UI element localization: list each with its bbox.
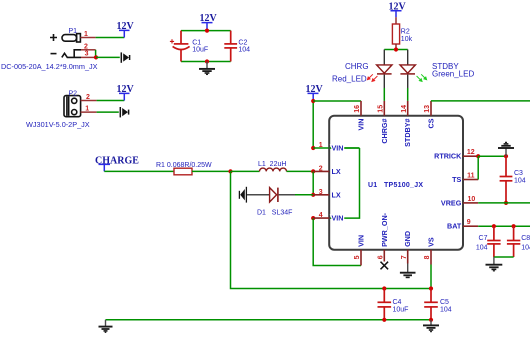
capacitor C1 (polarized 10uF) <box>170 31 190 62</box>
wire junction to L1 <box>231 170 260 172</box>
wire pin12 to C3 <box>478 155 506 157</box>
svg-text:R2: R2 <box>401 29 410 36</box>
power 12V (above C1/C2) <box>200 13 218 30</box>
capacitor C5 (104) <box>424 289 438 320</box>
wire VIN loop inside IC <box>329 148 359 218</box>
svg-text:BAT: BAT <box>447 222 462 231</box>
svg-text:TS: TS <box>452 175 461 184</box>
junction C8 top <box>511 224 515 228</box>
pin 15 stub <box>383 101 385 116</box>
wire L1 to pin 2 <box>287 170 314 172</box>
wire pin 8 down to bottom rail <box>430 265 432 289</box>
svg-text:LX: LX <box>332 190 341 199</box>
pin 10 stub <box>463 202 478 204</box>
svg-text:6: 6 <box>378 255 385 259</box>
capacitor C7 (104) <box>487 226 500 257</box>
svg-text:DC-005-20A_14.2*9.0mm_JX: DC-005-20A_14.2*9.0mm_JX <box>1 62 98 71</box>
diode D1 SL34F <box>270 188 295 202</box>
svg-text:C2: C2 <box>238 40 247 47</box>
wire C1C2 top rail <box>181 30 231 32</box>
wire junction down to bottom rail <box>231 171 432 288</box>
pin 2 stub P2 <box>81 100 97 102</box>
ground (P2, arrow style) <box>120 107 128 117</box>
svg-text:8: 8 <box>424 255 431 259</box>
junction 12V/pin16 <box>311 99 315 103</box>
svg-text:PWR_ON-: PWR_ON- <box>380 212 389 247</box>
svg-text:CHRG: CHRG <box>345 62 369 71</box>
svg-text:16: 16 <box>354 105 361 113</box>
pin 1 stub P1 <box>80 37 95 39</box>
capacitor C2 (104) <box>224 31 237 62</box>
wire P2 pin1 to ground <box>97 111 119 113</box>
wire LED CHRG to pin 15 <box>383 88 385 101</box>
svg-text:C5: C5 <box>440 299 449 306</box>
no-connect X on pin 6 <box>381 262 389 270</box>
junction C1C2 bottom <box>205 59 209 63</box>
svg-text:104: 104 <box>476 245 488 252</box>
wire CHARGE to R1 <box>104 170 174 172</box>
wire bottom rail B <box>106 319 432 321</box>
wire VREG to right edge <box>478 202 530 204</box>
pin 3 stub P1 <box>81 56 96 58</box>
svg-text:VIN: VIN <box>332 144 344 153</box>
inductor L1 22uH <box>260 168 287 171</box>
wire P2 pin2 to 12V <box>97 100 125 102</box>
junction pin 1 <box>311 146 315 150</box>
svg-text:P2: P2 <box>69 90 78 97</box>
svg-text:14: 14 <box>401 105 408 113</box>
junction R2/LEDs <box>394 47 398 51</box>
connector P2 (WJ301V) <box>64 96 81 117</box>
pin 1 stub P2 <box>81 111 97 113</box>
svg-text:104: 104 <box>514 178 526 185</box>
wire pin2 to pin3 vertical <box>312 171 314 194</box>
wire pin12 to pin11 <box>477 156 479 179</box>
pin 7 stub <box>407 250 409 264</box>
junction pin 12 <box>476 154 480 158</box>
svg-text:104: 104 <box>238 47 250 54</box>
pin 2 stub P1 <box>81 49 96 51</box>
ground (bottom left) <box>99 320 113 333</box>
junction pin 4 <box>311 216 315 220</box>
wire pin 1 into IC <box>313 147 359 149</box>
junction C3 top <box>504 154 508 158</box>
ground (pin 7 GND) <box>400 264 416 278</box>
junction pin 2 <box>311 169 315 173</box>
junction C4 top <box>382 286 386 290</box>
svg-text:P1: P1 <box>69 28 78 35</box>
capacitor C4 (10uF) <box>378 289 392 320</box>
wire CS pin13 to right edge <box>431 100 530 102</box>
power 12V (at IC pin 1/16) <box>306 84 324 101</box>
svg-text:VIN: VIN <box>357 119 366 131</box>
ground (below C7) <box>486 257 503 271</box>
svg-text:WJ301V-5.0-2P_JX: WJ301V-5.0-2P_JX <box>26 120 90 129</box>
pin 6 stub <box>383 250 385 262</box>
ground (P1, arrow style) <box>121 52 129 62</box>
svg-text:STDBY#: STDBY# <box>403 118 412 146</box>
pin 5 stub <box>360 250 362 266</box>
wire P1 pin2 to pin3 <box>95 50 97 58</box>
svg-text:15: 15 <box>378 105 385 113</box>
IC U1 TP5100_JX body <box>329 116 463 250</box>
svg-text:9: 9 <box>467 219 471 226</box>
pin 16 stub <box>360 101 362 116</box>
svg-text:C8: C8 <box>521 235 530 242</box>
pin 14 stub <box>407 101 409 116</box>
svg-text:C7: C7 <box>479 235 488 242</box>
svg-text:LX: LX <box>332 167 341 176</box>
pin 3 stub <box>313 194 329 196</box>
svg-text:C4: C4 <box>393 299 402 306</box>
wire pin 4 down and to pin 5 <box>313 218 361 265</box>
svg-text:2: 2 <box>319 165 323 172</box>
pin 9 stub <box>463 225 478 227</box>
wire C1C2 bottom rail <box>181 61 231 63</box>
svg-text:D1 SL34F: D1 SL34F <box>257 209 292 216</box>
capacitor C8 (104, clipped at edge) <box>507 226 520 257</box>
svg-text:U1 TP5100_JX: U1 TP5100_JX <box>368 182 423 189</box>
power 12V (above R2) <box>389 1 407 17</box>
svg-text:104: 104 <box>440 307 452 314</box>
svg-text:3: 3 <box>85 51 89 58</box>
svg-text:2: 2 <box>84 43 88 50</box>
svg-text:1: 1 <box>84 31 88 38</box>
pin 8 stub <box>430 250 432 265</box>
pin 2 stub <box>313 170 329 172</box>
power 12V (at P1) <box>117 21 135 38</box>
svg-text:GND: GND <box>403 231 412 247</box>
svg-text:Green_LED: Green_LED <box>432 70 474 79</box>
junction pin 3 <box>311 193 315 197</box>
pin 4 stub <box>313 217 329 219</box>
svg-text:7: 7 <box>401 255 408 259</box>
junction C7 top <box>492 224 496 228</box>
ground (D1, arrow style pointing left) <box>239 187 246 203</box>
svg-text:C1: C1 <box>192 40 201 47</box>
svg-text:CS: CS <box>427 118 436 128</box>
resistor R1 0.068R <box>174 168 192 175</box>
svg-text:1: 1 <box>85 106 89 113</box>
LED CHRG (red) <box>367 50 392 89</box>
net port CHARGE <box>95 156 139 172</box>
wire 12V to pin 16 <box>313 100 361 102</box>
junction C3 bottom / VREG <box>504 201 508 205</box>
capacitor C3 (104) <box>500 156 513 203</box>
svg-text:10: 10 <box>468 196 476 203</box>
junction C4 bottom <box>382 318 386 322</box>
svg-text:10uF: 10uF <box>192 47 208 54</box>
svg-text:10k: 10k <box>401 36 413 43</box>
svg-text:3: 3 <box>319 189 323 196</box>
svg-text:VIN: VIN <box>332 214 344 223</box>
ground (below C5) <box>423 320 439 332</box>
wire P1 pin1 to 12V <box>96 37 125 39</box>
svg-text:1: 1 <box>319 142 323 149</box>
svg-text:10uF: 10uF <box>393 307 409 314</box>
svg-text:5: 5 <box>354 255 361 259</box>
wire D1 to pin 3 <box>295 194 313 196</box>
svg-text:4: 4 <box>319 212 323 219</box>
svg-text:R1 0.068R/0.25W: R1 0.068R/0.25W <box>156 162 212 169</box>
pin 13 stub <box>430 101 432 116</box>
svg-text:13: 13 <box>424 105 431 113</box>
svg-text:CHRG#: CHRG# <box>380 119 389 144</box>
junction 12V/C1C2 top <box>205 29 209 33</box>
pin 1 stub <box>329 147 359 149</box>
ground (above RTRICK, pointing up) <box>498 142 514 156</box>
wire R1 to L1 junction <box>192 170 231 172</box>
resistor R2 10k <box>392 17 399 49</box>
junction pin8/bottom rail <box>429 286 433 290</box>
wire BAT to right edge <box>478 225 530 227</box>
wire 12V down to pin 1 <box>312 101 314 148</box>
svg-text:104: 104 <box>521 245 530 252</box>
svg-text:RTRICK: RTRICK <box>434 152 462 161</box>
svg-text:VS: VS <box>427 237 436 247</box>
pin 12 stub <box>463 155 478 157</box>
svg-text:Red_LED: Red_LED <box>332 74 367 83</box>
LED STDBY (green) <box>400 50 427 89</box>
wire LED tops <box>384 49 407 51</box>
connector P1 (DC-005 barrel jack) <box>50 34 81 58</box>
junction R1/L1/down <box>228 169 232 173</box>
wire C7/C8 bottoms <box>494 256 514 258</box>
svg-text:2: 2 <box>86 94 90 101</box>
ground (below C1/C2) <box>199 62 215 75</box>
pin 11 stub <box>463 179 478 181</box>
svg-text:11: 11 <box>467 173 475 180</box>
power 12V (at P2) <box>117 84 135 101</box>
svg-text:12: 12 <box>467 149 475 156</box>
svg-text:VREG: VREG <box>441 198 462 207</box>
svg-text:VIN: VIN <box>357 235 366 247</box>
wire gnd to D1 anode <box>247 194 270 196</box>
wire LED STDBY to pin 14 <box>407 88 409 101</box>
svg-text:L1 22uH: L1 22uH <box>258 161 286 168</box>
junction P1 pins 2/3 <box>94 55 98 59</box>
junction C5 bottom <box>429 318 433 322</box>
wire P1 to ground <box>96 56 120 58</box>
svg-text:C3: C3 <box>514 170 523 177</box>
